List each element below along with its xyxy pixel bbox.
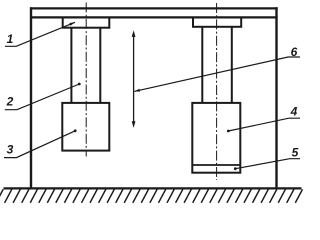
left flange bbox=[63, 18, 110, 28]
svg-text:6: 6 bbox=[291, 45, 298, 59]
left column bbox=[70, 28, 72, 103]
right block strip line bbox=[192, 164, 240, 166]
ground hatching bbox=[0, 189, 303, 203]
leader line 3 bbox=[4, 131, 75, 158]
left centerline bbox=[85, 3, 87, 157]
right block bbox=[192, 103, 240, 173]
left block bbox=[62, 103, 109, 151]
double-headed motion arrow bbox=[133, 34, 135, 125]
left post bbox=[30, 7, 32, 188]
leader line 1 bbox=[5, 22, 75, 46]
leader line 4 bbox=[228, 118, 300, 131]
leader line 6 bbox=[134, 57, 300, 91]
svg-text:4: 4 bbox=[290, 105, 298, 119]
svg-text:1: 1 bbox=[7, 32, 14, 46]
wire top beam upper line bbox=[30, 7, 278, 9]
svg-text:2: 2 bbox=[6, 95, 14, 109]
ground line bbox=[4, 187, 302, 189]
svg-text:5: 5 bbox=[292, 145, 299, 159]
right column bbox=[201, 27, 203, 103]
leader line 5 bbox=[235, 159, 300, 169]
right centerline bbox=[216, 3, 218, 180]
svg-text:3: 3 bbox=[7, 143, 14, 157]
wire top beam lower line bbox=[30, 16, 278, 18]
right post bbox=[275, 7, 277, 188]
right flange bbox=[193, 18, 241, 27]
leader line 2 bbox=[5, 84, 80, 110]
